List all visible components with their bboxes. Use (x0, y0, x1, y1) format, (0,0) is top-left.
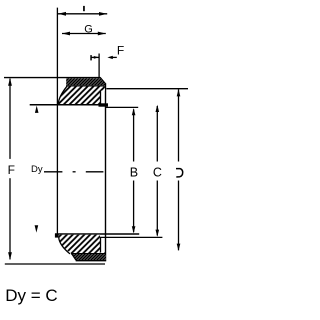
pipe line A (106, 88, 188, 90)
extension line for F (spigot) (98, 54, 100, 79)
label D (partial glyph) (176, 169, 183, 177)
extension line B bottom (99, 236, 163, 238)
junction blob at bore/back edge (99, 103, 109, 106)
top edge / F extension top (4, 77, 100, 79)
svg-text:C: C (153, 166, 162, 180)
inner lip edge bottom (100, 237, 102, 252)
chamfer bottom left (72, 254, 76, 261)
dimension B line (132, 108, 136, 233)
inner lip edge top (100, 91, 102, 105)
flange section hatch top (59, 87, 105, 105)
bore bottom edge (55, 233, 139, 235)
collar band hatch bottom (72, 254, 106, 260)
dimension F top: right arrow piece (107, 56, 116, 59)
inner recess curve top left (58, 86, 67, 104)
dimension C line (156, 105, 160, 237)
dimension D line (177, 89, 181, 251)
bottom edge (76, 260, 107, 262)
centerline (44, 171, 103, 173)
svg-text:G: G (84, 24, 93, 36)
svg-text:F: F (8, 163, 15, 177)
collar band hatch top (66, 78, 105, 85)
lip blob bottom left (55, 234, 59, 238)
svg-text:Dy = C: Dy = C (5, 286, 57, 305)
svg-text:F: F (117, 43, 124, 57)
dimension F left line (8, 78, 12, 260)
dimension G line (62, 32, 106, 36)
dimension F top: left arrow piece (90, 55, 99, 60)
back edge line (105, 84, 107, 260)
label I (83, 6, 85, 11)
svg-text:B: B (130, 165, 138, 179)
dimension Dy arrows (35, 106, 39, 233)
band top line bottom (71, 253, 106, 255)
recess diagonal bottom right (101, 253, 105, 257)
band bottom line top (66, 85, 105, 87)
face extension line + flange face (56, 8, 58, 235)
flange section hatch bottom (59, 235, 100, 253)
chamfer top right (100, 77, 106, 84)
extension line B top (106, 106, 139, 108)
F extension bottom line (5, 263, 105, 265)
dimension I line (57, 12, 107, 16)
inner recess curve bottom left (59, 237, 70, 254)
bore top edge (30, 104, 106, 106)
svg-text:Dy: Dy (31, 164, 43, 175)
